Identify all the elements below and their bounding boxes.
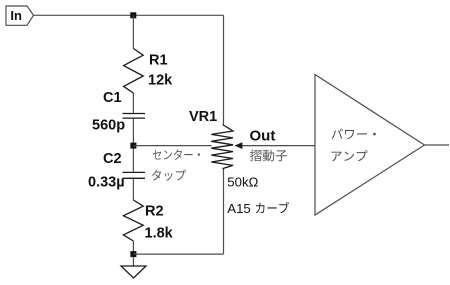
wire center tap to VR1 body — [133, 145, 211, 147]
svg-text:Out: Out — [250, 128, 276, 145]
label power amp line1 — [332, 129, 376, 140]
svg-text:0.33µ: 0.33µ — [88, 175, 125, 191]
label power amp line2 — [332, 150, 368, 161]
wire R2 to ground — [132, 241, 134, 266]
wire C2 to R2 — [132, 179, 134, 200]
label center tap line2 — [152, 170, 186, 181]
wire VR1 top lead — [223, 15, 225, 124]
resistor R2 — [123, 200, 143, 241]
op-amp power amplifier triangle — [315, 75, 425, 216]
svg-text:VR1: VR1 — [189, 109, 217, 125]
capacitor C1 — [123, 114, 146, 119]
wiper wire Out — [241, 145, 315, 147]
svg-text:R1: R1 — [149, 53, 168, 69]
svg-text:1.8k: 1.8k — [145, 226, 174, 242]
wire C1 to C2 through center node — [132, 119, 134, 172]
wire bottom: ground node to VR1 bottom — [133, 253, 223, 255]
node junction center tap — [130, 143, 136, 149]
node junction at In/R1 — [130, 12, 136, 18]
svg-text:560p: 560p — [92, 117, 125, 133]
capacitor C2 — [123, 172, 146, 178]
resistor R1 — [124, 49, 144, 94]
wire top: In to VR1 top corner — [34, 14, 224, 16]
amp output wire — [425, 144, 450, 146]
svg-text:50kΩ: 50kΩ — [227, 175, 258, 190]
node junction bottom — [130, 251, 136, 257]
svg-text:In: In — [10, 8, 22, 23]
label center tap line1 — [153, 149, 200, 160]
svg-text:R2: R2 — [145, 204, 164, 220]
label wiper (shudoshi) — [250, 150, 287, 162]
wiper arrowhead — [234, 142, 242, 149]
wire R1 to C1 — [132, 93, 134, 113]
svg-text:12k: 12k — [148, 72, 173, 88]
wire VR1 bottom lead — [223, 168, 225, 254]
potentiometer VR1 — [211, 125, 233, 169]
svg-text:A15: A15 — [227, 201, 250, 216]
svg-text:C2: C2 — [103, 151, 122, 167]
ground — [121, 266, 146, 278]
In tag — [6, 6, 34, 25]
wire R1 top lead — [132, 15, 134, 48]
svg-text:C1: C1 — [103, 90, 122, 106]
